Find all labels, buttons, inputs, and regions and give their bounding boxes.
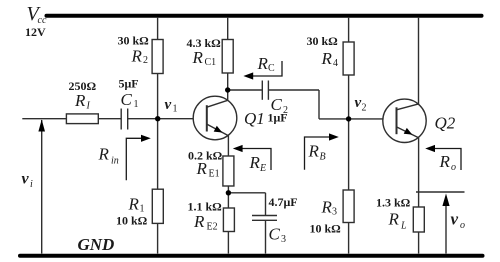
svg-text:E: E bbox=[259, 163, 266, 174]
svg-text:12V: 12V bbox=[25, 25, 46, 39]
svg-text:4: 4 bbox=[333, 58, 338, 69]
svg-text:4.7μF: 4.7μF bbox=[269, 195, 298, 209]
svg-text:R: R bbox=[193, 212, 205, 231]
svg-text:1.1 kΩ: 1.1 kΩ bbox=[188, 200, 223, 214]
svg-text:R: R bbox=[131, 47, 143, 66]
svg-text:v: v bbox=[22, 171, 30, 188]
svg-text:R: R bbox=[439, 152, 451, 171]
svg-text:R: R bbox=[98, 145, 110, 164]
svg-text:C1: C1 bbox=[205, 57, 217, 68]
svg-text:1.3 kΩ: 1.3 kΩ bbox=[376, 196, 411, 210]
svg-text:R: R bbox=[249, 153, 261, 172]
svg-text:o: o bbox=[460, 220, 465, 231]
svg-text:30 kΩ: 30 kΩ bbox=[307, 34, 339, 48]
svg-text:R: R bbox=[128, 195, 140, 214]
svg-text:R: R bbox=[192, 48, 204, 67]
svg-text:Q1: Q1 bbox=[244, 109, 265, 128]
svg-text:GND: GND bbox=[78, 235, 115, 254]
svg-text:5μF: 5μF bbox=[119, 77, 139, 91]
svg-text:1: 1 bbox=[173, 104, 178, 115]
svg-text:R: R bbox=[321, 198, 333, 217]
svg-text:I: I bbox=[86, 101, 91, 112]
svg-text:R: R bbox=[257, 54, 269, 73]
svg-text:R: R bbox=[321, 49, 333, 68]
svg-text:3: 3 bbox=[332, 207, 337, 218]
svg-text:o: o bbox=[451, 162, 456, 173]
svg-text:v: v bbox=[451, 210, 459, 229]
svg-text:B: B bbox=[320, 152, 326, 163]
svg-text:30 kΩ: 30 kΩ bbox=[118, 34, 150, 48]
svg-text:Q2: Q2 bbox=[435, 114, 456, 133]
svg-text:2: 2 bbox=[362, 103, 367, 114]
svg-text:R: R bbox=[196, 159, 208, 178]
svg-text:v: v bbox=[165, 97, 172, 113]
svg-text:C: C bbox=[268, 63, 275, 74]
svg-text:2: 2 bbox=[143, 55, 148, 66]
svg-text:E1: E1 bbox=[209, 169, 220, 180]
svg-text:10 kΩ: 10 kΩ bbox=[310, 222, 342, 236]
svg-text:1: 1 bbox=[134, 99, 139, 110]
svg-text:10 kΩ: 10 kΩ bbox=[116, 214, 148, 228]
svg-text:C: C bbox=[269, 225, 281, 244]
svg-text:v: v bbox=[355, 95, 362, 111]
svg-text:L: L bbox=[400, 221, 407, 232]
svg-text:R: R bbox=[74, 91, 86, 110]
svg-text:1μF: 1μF bbox=[268, 111, 288, 125]
svg-text:C: C bbox=[121, 90, 133, 109]
svg-text:R: R bbox=[308, 142, 320, 161]
svg-text:R: R bbox=[388, 210, 400, 229]
svg-text:E2: E2 bbox=[207, 222, 218, 233]
svg-text:in: in bbox=[111, 156, 119, 167]
svg-text:i: i bbox=[30, 179, 33, 190]
svg-text:3: 3 bbox=[281, 234, 286, 245]
